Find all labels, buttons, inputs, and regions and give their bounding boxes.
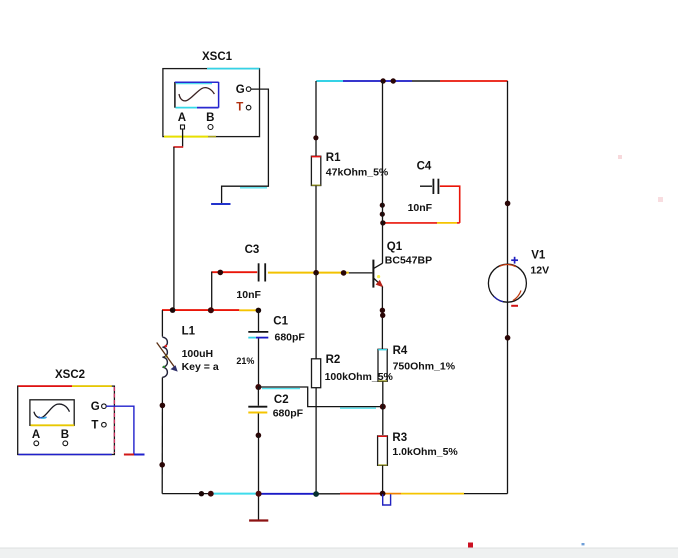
wire Q1 base lead bbox=[349, 272, 373, 274]
node tank net at scope A wire bbox=[170, 307, 176, 313]
wire XSC1 A probe bbox=[173, 130, 183, 311]
wire R2 bottom vertical bbox=[315, 388, 317, 494]
pink speck right bbox=[658, 197, 663, 202]
wire C2 to ground rail vertical bbox=[258, 435, 260, 519]
top power rail net VCC bbox=[316, 80, 507, 82]
svg-text:XSC1: XSC1 bbox=[202, 51, 233, 63]
resistor R3 bbox=[378, 432, 459, 466]
svg-text:R2: R2 bbox=[326, 354, 341, 366]
wire C1C2 tap to emitter branch bbox=[258, 387, 382, 408]
wire L1 bottom vertical bbox=[161, 405, 163, 493]
svg-text:100kOhm_5%: 100kOhm_5% bbox=[325, 371, 394, 383]
node collector line lower bbox=[380, 212, 385, 217]
wire R3 bottom bbox=[382, 465, 384, 493]
svg-text:C2: C2 bbox=[274, 394, 289, 406]
inductor L1 bbox=[157, 310, 255, 405]
wire R2 branch vertical bbox=[315, 273, 317, 359]
node L1 bottom lower bbox=[159, 462, 165, 468]
svg-text:T: T bbox=[91, 420, 98, 432]
node C1 top corner bbox=[256, 308, 262, 314]
svg-text:47kOhm_5%: 47kOhm_5% bbox=[326, 166, 389, 178]
node base net mid bbox=[341, 270, 347, 276]
node on top rail at collector branch bbox=[380, 78, 385, 83]
node C4 return on collector line bbox=[380, 220, 385, 225]
wire C4 bottom return red/yellow bbox=[383, 222, 460, 224]
svg-text:B: B bbox=[61, 429, 69, 441]
ground for XSC1 bbox=[211, 203, 230, 205]
resistor R4 bbox=[378, 345, 456, 382]
node L1 bottom upper bbox=[160, 403, 166, 409]
wire tank net yellow segment bbox=[239, 309, 258, 311]
node tank net at C3 stub bbox=[208, 307, 214, 313]
node rail at C2 column bbox=[256, 491, 262, 497]
svg-text:10nF: 10nF bbox=[408, 202, 433, 214]
svg-text:L1: L1 bbox=[182, 326, 196, 338]
wire base net yellow segment bbox=[268, 272, 349, 274]
wire tank net red segment bbox=[162, 309, 239, 311]
capacitor C3 bbox=[236, 244, 265, 301]
svg-text:A: A bbox=[32, 429, 40, 441]
capacitor C4 bbox=[408, 160, 439, 214]
oscilloscope XSC1 bbox=[163, 51, 260, 137]
wire C4 right lead red bbox=[440, 186, 460, 223]
svg-text:C4: C4 bbox=[417, 160, 432, 172]
svg-text:100uH: 100uH bbox=[182, 348, 214, 360]
svg-text:C1: C1 bbox=[273, 316, 288, 328]
red speck on status bar bbox=[468, 543, 473, 548]
svg-text:10nF: 10nF bbox=[236, 289, 261, 301]
node on C3 left lead bbox=[218, 270, 224, 276]
node emitter upper bbox=[380, 308, 385, 313]
wire fringe under G ground run bbox=[240, 187, 267, 189]
node emitter lower bbox=[380, 313, 385, 318]
svg-text:B: B bbox=[206, 112, 214, 124]
resistor R1 bbox=[311, 152, 389, 186]
svg-text:Q1: Q1 bbox=[387, 241, 403, 253]
node on top rail right of collector branch bbox=[391, 78, 396, 83]
node rail left b bbox=[208, 491, 214, 497]
node rail at R3 column bbox=[380, 491, 386, 497]
node below C2 bbox=[256, 433, 262, 439]
wire V1 branch vertical bbox=[507, 81, 509, 494]
svg-text:V1: V1 bbox=[531, 249, 546, 261]
node rail at R2 column bbox=[313, 491, 319, 497]
node V1 branch lower bbox=[505, 335, 511, 341]
node emitter branch at tap bbox=[380, 404, 386, 410]
svg-text:750Ohm_1%: 750Ohm_1% bbox=[393, 360, 456, 372]
wire R1 bottom to base node bbox=[315, 186, 317, 273]
capacitor C1 bbox=[248, 310, 305, 387]
source V1 bbox=[488, 249, 549, 305]
svg-text:BC547BP: BC547BP bbox=[385, 254, 432, 266]
blue speck on status bar bbox=[582, 543, 585, 545]
status bar strip bbox=[0, 548, 678, 558]
capacitor C2 bbox=[248, 387, 303, 435]
svg-text:G: G bbox=[236, 84, 245, 96]
wire blue notch below rail bbox=[383, 494, 391, 505]
svg-text:R4: R4 bbox=[393, 345, 408, 357]
svg-text:G: G bbox=[91, 401, 100, 413]
node collector line upper bbox=[380, 203, 385, 208]
svg-text:Key = a: Key = a bbox=[182, 361, 219, 373]
wire XSC2 G to ground blue bbox=[106, 406, 134, 454]
ground for XSC2 bbox=[124, 454, 145, 456]
wire XSC1 G to ground bbox=[222, 89, 269, 203]
svg-text:A: A bbox=[178, 112, 186, 124]
svg-text:T: T bbox=[236, 102, 243, 114]
node V1 branch upper bbox=[505, 201, 511, 207]
svg-text:12V: 12V bbox=[530, 265, 549, 277]
resistor R2 bbox=[312, 354, 341, 388]
wire R4 bottom bbox=[382, 381, 384, 435]
node above R1 bbox=[313, 135, 318, 140]
oscilloscope XSC2 bbox=[18, 369, 115, 455]
wire Q1 collector vertical bbox=[382, 81, 384, 263]
wire C3 left lead red bbox=[212, 272, 258, 311]
node C1 C2 junction bbox=[255, 384, 261, 390]
svg-text:C3: C3 bbox=[245, 244, 260, 256]
resistor R2 value label bbox=[325, 371, 394, 383]
bottom ground rail net bbox=[162, 493, 507, 495]
svg-text:R3: R3 bbox=[392, 432, 407, 444]
svg-text:680pF: 680pF bbox=[273, 408, 304, 420]
node rail left a bbox=[199, 491, 204, 496]
svg-text:680pF: 680pF bbox=[275, 331, 306, 343]
transistor Q1 bbox=[373, 241, 432, 288]
svg-text:R1: R1 bbox=[326, 152, 341, 164]
svg-text:21%: 21% bbox=[236, 356, 254, 366]
wire R1 branch vertical bbox=[315, 81, 317, 156]
svg-text:XSC2: XSC2 bbox=[55, 369, 85, 381]
pink speck upper right bbox=[618, 155, 622, 159]
ground under C2 bbox=[249, 519, 268, 521]
node base net at R1/R2 column bbox=[313, 270, 319, 276]
wire emitter vertical bbox=[381, 286, 383, 349]
svg-text:1.0kOhm_5%: 1.0kOhm_5% bbox=[392, 446, 458, 458]
